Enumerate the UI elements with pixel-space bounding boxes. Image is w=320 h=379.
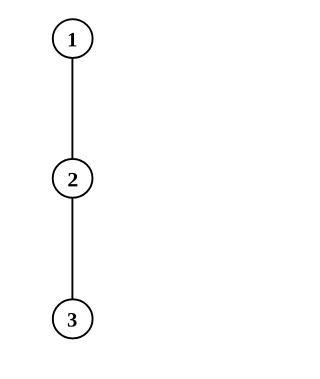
edge 1-2 [71, 57, 73, 159]
edge 2-3 [71, 197, 73, 299]
node 3 label "3" [68, 313, 77, 327]
node 2 label "2" [68, 173, 77, 187]
node 3 ellipse [53, 299, 93, 338]
node 1 label "1" [69, 33, 77, 47]
node 1 ellipse [53, 19, 93, 58]
node 2 ellipse [53, 159, 93, 198]
